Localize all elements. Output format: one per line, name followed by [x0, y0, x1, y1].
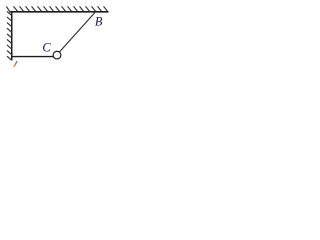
rope B to C (diagonal): [59, 13, 95, 53]
ceiling line: [10, 11, 109, 13]
pulley circle C: [53, 51, 61, 59]
wall hatch marks: [7, 11, 12, 60]
rope wall to C: [12, 56, 53, 58]
svg-text:B: B: [95, 15, 103, 29]
ceiling hatch marks: [6, 6, 107, 12]
svg-text:C: C: [42, 41, 51, 55]
wall line: [11, 12, 13, 61]
